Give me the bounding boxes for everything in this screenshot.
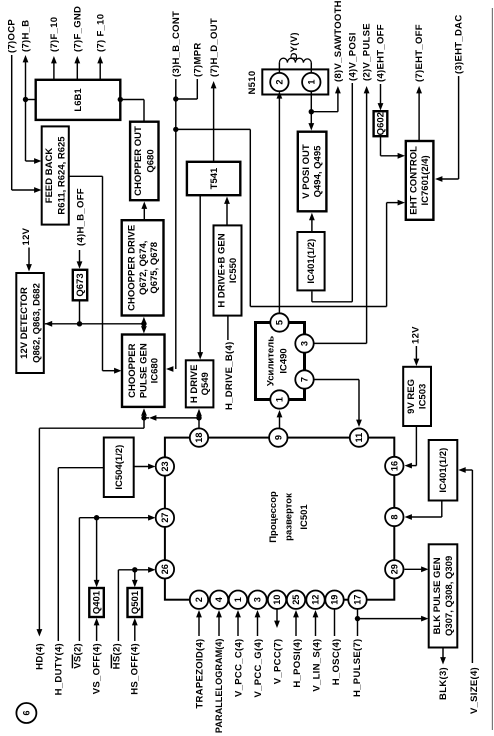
pin 25 of IC501 bbox=[287, 591, 305, 609]
op-amp Усилитель IC490 bbox=[256, 323, 305, 400]
wire H_PULSE from pin17 bbox=[357, 609, 359, 636]
svg-text:CHOPPER OUT: CHOPPER OUT bbox=[133, 126, 144, 196]
wire 9V REG to processor pin16 bbox=[405, 426, 417, 469]
svg-text:7: 7 bbox=[300, 377, 310, 382]
node Q673 bus junction bbox=[77, 321, 82, 326]
wire HS_OFF to Q501 bbox=[132, 618, 138, 641]
wire H_B tap to L681 bbox=[26, 99, 36, 101]
pin 10 of IC501 bbox=[268, 591, 286, 609]
svg-text:(7) F_10: (7) F_10 bbox=[95, 14, 106, 52]
ic IC401(1/2) first half bbox=[297, 232, 324, 290]
svg-text:BLK PULSE GEN: BLK PULSE GEN bbox=[432, 557, 443, 634]
transformer T541 bbox=[187, 162, 240, 195]
wire page edge border bbox=[491, 8, 493, 730]
svg-text:Q675, Q678: Q675, Q678 bbox=[149, 242, 160, 294]
node H_B junction bbox=[23, 97, 28, 102]
node H_PULSE junction bbox=[355, 616, 360, 621]
svg-text:H_PULSE(7): H_PULSE(7) bbox=[352, 639, 363, 697]
svg-text:PULSE GEN: PULSE GEN bbox=[138, 343, 149, 398]
svg-text:(4)EHT_OFF: (4)EHT_OFF bbox=[375, 24, 386, 82]
svg-text:HD(4): HD(4) bbox=[34, 643, 45, 670]
transistor Q501 bbox=[128, 588, 143, 617]
svg-text:IC680: IC680 bbox=[150, 358, 161, 383]
wire H_DUTY to IC504 bbox=[58, 468, 104, 641]
svg-text:Q602: Q602 bbox=[376, 112, 387, 135]
pin 17 of IC501 bbox=[348, 591, 366, 609]
wire V_LIN_S to pin12 bbox=[313, 610, 319, 636]
svg-text:Q501: Q501 bbox=[130, 590, 141, 614]
pin 5 of IC490 bbox=[270, 313, 288, 331]
svg-text:12V: 12V bbox=[411, 326, 422, 344]
svg-text:DY(V): DY(V) bbox=[289, 32, 300, 59]
node H DRIVE riser junction bbox=[196, 415, 201, 420]
wire (7)F_10 from L681 bbox=[49, 17, 60, 80]
wire (7) F_10 from L681 bbox=[95, 14, 106, 80]
wire IC550 to T541 bbox=[224, 197, 230, 225]
svg-text:18: 18 bbox=[194, 432, 204, 442]
pin 16 of IC501 bbox=[385, 457, 403, 475]
svg-text:H DRIVE+B GEN: H DRIVE+B GEN bbox=[217, 233, 228, 307]
svg-text:L6B1: L6B1 bbox=[73, 88, 84, 112]
node page reference 6 bbox=[16, 703, 36, 723]
svg-text:(2)V_PULSE: (2)V_PULSE bbox=[362, 23, 373, 81]
pin 3 of IC490 bbox=[295, 334, 313, 352]
svg-text:H_OSC(4): H_OSC(4) bbox=[331, 639, 342, 686]
svg-text:IC401(1/2): IC401(1/2) bbox=[438, 448, 449, 493]
svg-text:29: 29 bbox=[389, 564, 399, 574]
wire drive link to pulse gen bbox=[144, 415, 199, 421]
svg-text:H_DUTY(4): H_DUTY(4) bbox=[54, 643, 65, 695]
svg-text:EHT CONTROL: EHT CONTROL bbox=[409, 146, 420, 215]
wire (7)OCP to FEED BACK bbox=[6, 19, 41, 193]
svg-text:VS(2): VS(2) bbox=[73, 643, 84, 669]
pin 11 of IC501 bbox=[350, 428, 368, 446]
svg-text:8: 8 bbox=[389, 514, 399, 519]
wire V_PCC_C to pin1 bbox=[235, 610, 241, 636]
svg-text:Процессор: Процессор bbox=[268, 491, 279, 543]
svg-text:(3)EHT_DAC: (3)EHT_DAC bbox=[453, 15, 464, 74]
pin 26 of IC501 bbox=[156, 560, 174, 578]
svg-text:V POSI OUT: V POSI OUT bbox=[301, 144, 312, 199]
connector N510 bbox=[262, 69, 328, 94]
svg-text:HS(2): HS(2) bbox=[112, 643, 123, 669]
wire H_PULSE to BLK PULSE GEN bbox=[358, 616, 429, 622]
wire pin18 riser to H DRIVE bbox=[196, 409, 202, 429]
wire (7)H_D_OUT from T541 bbox=[209, 18, 220, 162]
svg-text:CHOOPPER: CHOOPPER bbox=[127, 343, 138, 398]
pin 1 of N510 bbox=[302, 73, 320, 91]
svg-text:разверток: разверток bbox=[284, 493, 295, 541]
svg-text:19: 19 bbox=[330, 595, 340, 605]
svg-text:TRAPEZOID(4): TRAPEZOID(4) bbox=[194, 639, 205, 709]
label (4)EHT_OFF to Q602 bbox=[375, 24, 386, 110]
wire BLK output bbox=[440, 648, 446, 665]
ic 12V DETECTOR Q862 Q863 D682 bbox=[16, 273, 44, 373]
ic Процессор разверток IC501 bbox=[165, 438, 394, 600]
node chopper bus junction bbox=[141, 321, 146, 326]
node L681 output bbox=[118, 97, 123, 102]
wire HS branch to Q501 bbox=[132, 570, 138, 588]
node MPR junction bbox=[173, 96, 178, 101]
svg-text:T541: T541 bbox=[209, 167, 220, 189]
svg-text:12: 12 bbox=[311, 595, 321, 605]
wire PARALLELOGRAM to pin4 bbox=[216, 610, 222, 636]
wire H_B_CONT into CHOOPPER PULSE GEN bbox=[166, 366, 173, 372]
pin 2 of N510 bbox=[270, 73, 288, 91]
pin 4 of IC501 bbox=[210, 591, 228, 609]
wire (7)H_B with arrow bbox=[20, 20, 41, 164]
svg-text:V_SIZE(4): V_SIZE(4) bbox=[469, 667, 480, 714]
svg-text:IC504(1/2): IC504(1/2) bbox=[114, 445, 125, 490]
svg-text:IC7601(2/4): IC7601(2/4) bbox=[420, 155, 431, 205]
wire (3)H_B_CONT bbox=[171, 11, 182, 369]
ic CHOOPPER PULSE GEN IC680 bbox=[122, 335, 165, 407]
svg-text:V_LIN_S(4): V_LIN_S(4) bbox=[311, 639, 322, 692]
ic BLK PULSE GEN Q307 Q308 Q309 bbox=[429, 544, 458, 647]
pin 29 of IC501 bbox=[385, 560, 403, 578]
svg-text:(8)V_SAWTOOTH: (8)V_SAWTOOTH bbox=[333, 0, 344, 82]
wire (2)V_PULSE bbox=[314, 23, 373, 343]
svg-text:BLK(3): BLK(3) bbox=[438, 667, 449, 700]
svg-text:Q494, Q495: Q494, Q495 bbox=[313, 145, 324, 197]
wire 12V detector bus bbox=[45, 321, 144, 327]
svg-text:HS_OFF(4): HS_OFF(4) bbox=[130, 643, 141, 695]
node pin1 junction bbox=[309, 109, 314, 114]
svg-text:23: 23 bbox=[160, 461, 170, 471]
pin 9 of IC501 bbox=[269, 428, 287, 446]
svg-text:12V: 12V bbox=[21, 227, 32, 245]
svg-text:V_PCC_G(4): V_PCC_G(4) bbox=[253, 639, 264, 698]
svg-text:12V DETECTOR: 12V DETECTOR bbox=[19, 287, 30, 359]
svg-text:IC501: IC501 bbox=[299, 504, 310, 530]
wire bus to CHOOPPER DRIVE bbox=[141, 317, 147, 324]
svg-text:(7)EHT_OFF: (7)EHT_OFF bbox=[414, 24, 425, 82]
wire H_OSC to pin19 bbox=[334, 609, 336, 636]
wire FEED BACK to CHOOPPER PULSE GEN bbox=[69, 176, 122, 373]
ic IC504(1/2) bbox=[104, 438, 134, 498]
svg-text:10: 10 bbox=[272, 595, 282, 605]
wire H_B_CONT to EHT CONTROL bbox=[176, 129, 405, 306]
svg-text:VS_OFF(4): VS_OFF(4) bbox=[92, 643, 103, 694]
svg-text:2: 2 bbox=[194, 597, 204, 602]
svg-text:(7)F_GND: (7)F_GND bbox=[72, 6, 83, 52]
transistor Q401 bbox=[89, 588, 104, 617]
inductor L681 bbox=[36, 80, 121, 120]
label 12V supply left bbox=[21, 227, 32, 271]
svg-text:Усилитель: Усилитель bbox=[266, 336, 277, 386]
wire (7)F_GND from L681 bbox=[72, 6, 83, 80]
svg-text:27: 27 bbox=[160, 513, 170, 523]
wire amplifier pin5 to N510 pin2 bbox=[277, 91, 283, 313]
svg-text:4: 4 bbox=[214, 596, 224, 602]
wire pin7 to processor pin11 bbox=[314, 380, 362, 428]
transistor group CHOOPPER DRIVE Q672 Q674 Q675 Q678 bbox=[122, 220, 164, 315]
wire HD output run bbox=[37, 428, 145, 636]
transistor pair V POSI OUT Q494 Q495 bbox=[298, 132, 327, 212]
transistor Q602 bbox=[374, 111, 388, 136]
node HS branch junction bbox=[132, 567, 137, 572]
svg-text:1: 1 bbox=[275, 397, 285, 402]
wire IC504 to pin23 bbox=[134, 464, 156, 470]
ic EHT CONTROL IC7601(2/4) bbox=[406, 141, 434, 220]
wire Q673 to 12V bus bbox=[79, 300, 81, 324]
svg-text:Q673: Q673 bbox=[75, 273, 86, 296]
pin 3 of IC501 bbox=[248, 591, 266, 609]
wire VS_OFF to Q401 bbox=[94, 618, 100, 641]
wire IC550 to H_DRIVE_B label bbox=[227, 316, 229, 340]
svg-text:Q672, Q674,: Q672, Q674, bbox=[138, 241, 149, 295]
wire (3)EHT_DAC to EHT CONTROL bbox=[435, 15, 464, 182]
svg-text:17: 17 bbox=[353, 595, 363, 605]
svg-text:16: 16 bbox=[389, 461, 399, 471]
svg-text:FEED BACK: FEED BACK bbox=[44, 148, 55, 204]
svg-text:25: 25 bbox=[291, 595, 301, 605]
svg-text:H_POSI(4): H_POSI(4) bbox=[292, 639, 303, 688]
svg-text:1: 1 bbox=[306, 80, 316, 85]
svg-text:(4)H_B_OFF: (4)H_B_OFF bbox=[75, 188, 86, 246]
label HS(2) with overline bbox=[111, 643, 122, 669]
ic IC401(1/2) second half bbox=[429, 440, 458, 501]
wire (4)V_POSI to IC401 bbox=[312, 32, 359, 301]
pin 27 of IC501 bbox=[156, 509, 174, 527]
wire V_SIZE to IC401 bbox=[458, 467, 472, 663]
pin 7 of IC490 bbox=[295, 370, 313, 388]
wire VS to pin27 bbox=[79, 515, 155, 641]
pin 8 of IC501 bbox=[385, 508, 403, 526]
svg-text:IC490: IC490 bbox=[279, 348, 290, 373]
svg-text:H DRIVE: H DRIVE bbox=[189, 365, 200, 404]
transistor Q673 bbox=[73, 270, 87, 301]
svg-text:1: 1 bbox=[233, 597, 243, 602]
svg-text:(7)F_10: (7)F_10 bbox=[49, 17, 60, 52]
pin 18 of IC501 bbox=[190, 428, 208, 446]
wire IC401 to V POSI OUT bbox=[309, 213, 315, 231]
svg-text:(4)V_POSI: (4)V_POSI bbox=[347, 32, 358, 81]
wire TRAPEZOID to pin2 bbox=[196, 610, 202, 636]
wire pulse gen bottom stub bbox=[141, 408, 147, 428]
pin 1 of IC490 bbox=[270, 390, 288, 408]
svg-text:(3)H_B_CONT: (3)H_B_CONT bbox=[171, 11, 182, 77]
transistor CHOPPER OUT Q680 bbox=[130, 122, 158, 201]
regulator 9V REG IC503 bbox=[403, 367, 431, 426]
svg-text:9V REG: 9V REG bbox=[406, 379, 417, 414]
wire pin9 to amplifier pin1 bbox=[277, 410, 283, 429]
wire (8)V_SAWTOOTH bbox=[311, 0, 344, 112]
wire IC401 to processor pin8 bbox=[405, 501, 442, 520]
ic H DRIVE+B GEN IC550 bbox=[214, 225, 242, 315]
wire HS to pin26 bbox=[118, 567, 155, 641]
svg-text:(7)MPR: (7)MPR bbox=[192, 42, 203, 77]
svg-text:V_PCC_C(4): V_PCC_C(4) bbox=[234, 639, 245, 697]
svg-text:26: 26 bbox=[160, 564, 170, 574]
wire L681 to CHOPPER OUT bbox=[120, 100, 144, 122]
pin 19 of IC501 bbox=[325, 591, 343, 609]
svg-text:IC503: IC503 bbox=[418, 384, 429, 409]
node H_B_CONT branch junction bbox=[173, 127, 178, 132]
svg-text:R611, R624, R625: R611, R624, R625 bbox=[57, 136, 68, 215]
svg-text:V_PCC(7): V_PCC(7) bbox=[273, 639, 284, 685]
transistor H DRIVE Q549 bbox=[186, 360, 214, 407]
svg-text:3: 3 bbox=[300, 341, 310, 346]
pin 1 of IC501 bbox=[229, 591, 247, 609]
svg-text:Q549: Q549 bbox=[200, 372, 211, 395]
label VS(2) with overline bbox=[72, 643, 83, 669]
node VS branch junction bbox=[94, 515, 99, 520]
svg-text:N510: N510 bbox=[247, 71, 258, 95]
svg-text:9: 9 bbox=[273, 435, 283, 440]
wire CHOOPPER DRIVE to CHOPPER OUT bbox=[141, 202, 147, 220]
wire bus to CHOOPPER PULSE GEN bbox=[141, 324, 147, 334]
svg-text:Q862, Q863, D682: Q862, Q863, D682 bbox=[32, 283, 43, 363]
svg-text:Q307, Q308, Q309: Q307, Q308, Q309 bbox=[444, 556, 455, 636]
svg-text:(7)OCP: (7)OCP bbox=[6, 19, 17, 53]
inductor DY(V) deflection coil bbox=[279, 58, 311, 73]
node pulse gen stub junction bbox=[141, 415, 146, 420]
label 12V supply right bbox=[411, 326, 422, 366]
resistor network FEED BACK R611 R624 R625 bbox=[42, 126, 69, 224]
svg-text:CHOOPPER DRIVE: CHOOPPER DRIVE bbox=[127, 225, 138, 311]
wire VS branch to Q401 bbox=[94, 518, 100, 588]
svg-text:2: 2 bbox=[274, 80, 284, 85]
wire V_PCC from pin10 bbox=[274, 609, 280, 628]
pin 12 of IC501 bbox=[306, 591, 324, 609]
wire (7)MPR bbox=[176, 42, 204, 99]
svg-text:11: 11 bbox=[354, 433, 364, 443]
wire N510 pin1 down bbox=[310, 91, 312, 112]
svg-text:IC550: IC550 bbox=[228, 258, 239, 283]
wire pin1 to V POSI OUT bbox=[308, 112, 314, 131]
wire pin29 to BLK PULSE GEN bbox=[405, 566, 429, 572]
svg-text:H_DRIVE_B(4): H_DRIVE_B(4) bbox=[224, 341, 235, 410]
pin 23 of IC501 bbox=[156, 457, 174, 475]
svg-text:Q401: Q401 bbox=[92, 590, 103, 614]
wire H_POSI to pin25 bbox=[293, 610, 299, 636]
svg-text:5: 5 bbox=[275, 320, 285, 325]
svg-text:(7)H_D_OUT: (7)H_D_OUT bbox=[209, 18, 220, 77]
pin 2 of IC501 bbox=[190, 591, 208, 609]
wire V_PCC_G to pin3 bbox=[255, 610, 261, 636]
svg-text:IC401(1/2): IC401(1/2) bbox=[306, 239, 317, 284]
wire Q602 to EHT CONTROL bbox=[381, 136, 406, 159]
svg-text:PARALLELOGRAM(4): PARALLELOGRAM(4) bbox=[214, 639, 224, 734]
svg-text:Q680: Q680 bbox=[146, 149, 157, 172]
svg-text:6: 6 bbox=[21, 710, 31, 715]
wire (7)EHT_OFF from EHT CONTROL bbox=[414, 24, 425, 140]
wire T541 to H DRIVE bbox=[197, 195, 203, 359]
svg-text:3: 3 bbox=[253, 597, 263, 602]
svg-text:(7)H_B: (7)H_B bbox=[20, 20, 31, 52]
label (4)H_B_OFF bbox=[75, 188, 86, 269]
